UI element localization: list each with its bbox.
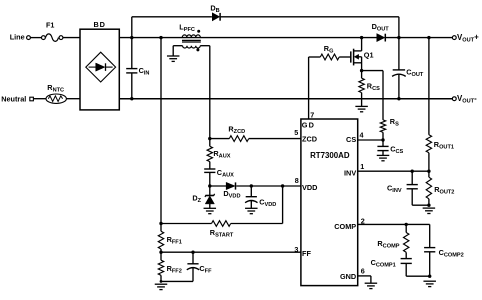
node RCOMP junction bbox=[405, 223, 408, 226]
svg-text:ROUT2: ROUT2 bbox=[434, 185, 454, 196]
svg-text:RZCD: RZCD bbox=[228, 125, 245, 136]
node COUT bottom junction bbox=[397, 97, 400, 100]
svg-text:5: 5 bbox=[294, 128, 298, 137]
svg-text:RCOMP: RCOMP bbox=[377, 239, 399, 250]
node Line input terminal bbox=[10, 32, 31, 41]
svg-text:RT7300AD: RT7300AD bbox=[310, 151, 350, 160]
inductor LPFC (boost inductor with aux winding) bbox=[179, 22, 201, 51]
pin 3 FF label bbox=[294, 245, 311, 258]
node Neutral input terminal bbox=[1, 95, 33, 104]
node CIN bottom junction bbox=[130, 97, 133, 100]
ground aux winding bbox=[167, 56, 180, 61]
resistor RFF1 bbox=[158, 231, 182, 252]
node COUT top junction bbox=[397, 36, 400, 39]
capacitor CVDD bbox=[245, 186, 276, 208]
ground RCS return bbox=[355, 106, 368, 111]
pin 5 ZCD label bbox=[294, 128, 317, 143]
resistor RAUX bbox=[207, 139, 231, 169]
ground IC GND pin bbox=[365, 283, 378, 288]
node VOUT- terminal bbox=[452, 94, 477, 105]
fuse F1 bbox=[42, 20, 63, 41]
capacitor CINV bbox=[387, 171, 429, 205]
wire FF divider to FF pin bbox=[161, 251, 301, 253]
wire aux winding left lead bbox=[173, 46, 182, 56]
wire CS pin to RS bottom bbox=[358, 139, 383, 141]
svg-text:RSTART: RSTART bbox=[210, 228, 234, 239]
svg-text:RFF1: RFF1 bbox=[167, 235, 182, 246]
node VDD feed junction bbox=[208, 184, 211, 187]
node Q1 source junction bbox=[360, 69, 363, 72]
pin 2 COMP label bbox=[334, 216, 364, 231]
svg-text:RNTC: RNTC bbox=[47, 83, 64, 94]
wire COMP pin to network bbox=[358, 223, 430, 225]
node FF divider junction bbox=[159, 251, 162, 254]
svg-text:1: 1 bbox=[360, 162, 364, 171]
ground CVDD bbox=[245, 208, 257, 213]
wire rectified line feed column bbox=[160, 38, 162, 232]
svg-text:VOUT+: VOUT+ bbox=[457, 33, 479, 44]
svg-text:BD: BD bbox=[94, 20, 106, 29]
svg-text:RG: RG bbox=[324, 44, 334, 55]
svg-text:RS: RS bbox=[390, 117, 399, 128]
svg-text:ROUT1: ROUT1 bbox=[434, 140, 454, 151]
node RSTART tap junction bbox=[159, 222, 162, 225]
wire INV pin to divider bbox=[358, 170, 429, 172]
node output divider tap junction bbox=[427, 36, 430, 39]
node compensation bottom junction bbox=[428, 275, 431, 278]
svg-text:CAUX: CAUX bbox=[217, 168, 234, 179]
pin 6 GND label bbox=[340, 266, 365, 281]
svg-text:CCOMP1: CCOMP1 bbox=[371, 258, 396, 269]
node divider INV junction bbox=[427, 170, 430, 173]
diode DB bbox=[210, 3, 220, 20]
ground compensation network bbox=[423, 281, 436, 286]
svg-text:DB: DB bbox=[210, 3, 219, 14]
node CIN top junction bbox=[130, 36, 133, 39]
node RSTART riser junction bbox=[281, 184, 284, 187]
resistor RS bbox=[380, 117, 399, 140]
svg-text:ZCD: ZCD bbox=[302, 134, 317, 143]
svg-text:RCS: RCS bbox=[367, 82, 380, 93]
svg-text:LPFC: LPFC bbox=[179, 22, 195, 33]
capacitor CFF bbox=[161, 252, 212, 281]
svg-text:DZ: DZ bbox=[192, 194, 201, 205]
svg-text:CIN: CIN bbox=[139, 66, 150, 77]
svg-text:Neutral: Neutral bbox=[1, 95, 26, 104]
svg-text:GD: GD bbox=[302, 121, 316, 130]
ground DZ bbox=[204, 208, 217, 213]
zener diode DZ bbox=[192, 186, 214, 208]
wire riser to DB wire bbox=[131, 17, 133, 38]
op-amp U1 controller IC RT7300AD bbox=[301, 119, 358, 286]
svg-text:Q1: Q1 bbox=[364, 50, 374, 59]
capacitor CCS bbox=[377, 140, 403, 155]
svg-text:COMP: COMP bbox=[334, 222, 356, 231]
svg-text:VDD: VDD bbox=[302, 183, 317, 192]
svg-text:DVDD: DVDD bbox=[223, 189, 240, 200]
wire ZCD tap to RZCD bbox=[210, 138, 230, 140]
resistor ROUT2 (lower divider) bbox=[426, 171, 454, 205]
capacitor COUT bbox=[392, 38, 424, 99]
svg-text:F1: F1 bbox=[46, 20, 54, 29]
svg-text:RAUX: RAUX bbox=[213, 149, 230, 160]
resistor RCOMP bbox=[377, 224, 409, 258]
wire GD pin riser bbox=[309, 57, 321, 119]
diode DVDD bbox=[210, 182, 301, 199]
resistor ROUT1 (upper divider) bbox=[426, 38, 454, 172]
svg-text:3: 3 bbox=[294, 245, 298, 254]
svg-text:CCS: CCS bbox=[390, 145, 403, 156]
svg-text:7: 7 bbox=[310, 110, 314, 119]
capacitor CCOMP1 bbox=[371, 258, 430, 276]
resistor RSTART bbox=[161, 221, 283, 239]
wire return rail bbox=[119, 98, 452, 100]
node LPFC feed junction bbox=[159, 36, 162, 39]
svg-text:4: 4 bbox=[360, 130, 364, 139]
pin 4 CS label bbox=[346, 130, 363, 144]
svg-text:FF: FF bbox=[302, 249, 311, 258]
node CFF top junction bbox=[191, 251, 194, 254]
transistor Q1 (power MOSFET) bbox=[351, 38, 374, 71]
ground CCS bbox=[377, 155, 390, 160]
wire DB bypass top bbox=[132, 16, 399, 18]
pin 1 INV label bbox=[344, 162, 364, 177]
bridge rectifier BD bbox=[80, 20, 119, 110]
wire Line to fuse bbox=[31, 37, 42, 39]
wire RCS ground stub bbox=[361, 99, 363, 107]
svg-text:8: 8 bbox=[295, 176, 299, 185]
node RFF2 CFF bottom junction bbox=[160, 280, 163, 283]
resistor RCS bbox=[359, 71, 380, 99]
capacitor CAUX bbox=[204, 168, 234, 186]
node CS junction bbox=[381, 138, 384, 141]
svg-text:CCOMP2: CCOMP2 bbox=[439, 248, 464, 259]
capacitor CCOMP2 bbox=[424, 224, 464, 276]
thermistor RNTC bbox=[46, 83, 66, 103]
svg-text:CFF: CFF bbox=[199, 264, 212, 275]
wire main rail from bridge to DOUT anode bbox=[119, 37, 377, 39]
svg-text:CS: CS bbox=[346, 135, 356, 144]
ground output divider bbox=[423, 208, 436, 213]
resistor RZCD bbox=[228, 125, 301, 142]
wire RNTC to bridge bbox=[66, 98, 80, 100]
wire fuse to bridge bbox=[63, 37, 80, 39]
svg-text:VOUT-: VOUT- bbox=[457, 94, 477, 105]
node divider bottom junction bbox=[427, 204, 430, 207]
node Q1 drain junction bbox=[360, 36, 363, 39]
pin 8 VDD label bbox=[295, 176, 318, 192]
capacitor CIN bbox=[126, 38, 149, 99]
node CVDD junction bbox=[250, 184, 253, 187]
svg-text:DOUT: DOUT bbox=[372, 22, 390, 33]
svg-text:GND: GND bbox=[340, 272, 356, 281]
wire RG to gate bbox=[339, 56, 351, 58]
svg-text:CINV: CINV bbox=[387, 184, 402, 195]
node RZCD tap junction bbox=[208, 137, 211, 140]
node VOUT+ terminal bbox=[452, 33, 479, 44]
wire Q1 source to RS bbox=[362, 71, 383, 120]
node CINV junction bbox=[411, 170, 414, 173]
svg-text:COUT: COUT bbox=[406, 68, 424, 79]
wire aux winding right lead bbox=[200, 46, 210, 139]
wire RSTART riser to VDD bbox=[282, 186, 284, 224]
ground RFF2 bbox=[155, 284, 168, 289]
svg-text:Line: Line bbox=[10, 32, 25, 41]
pin 7 GD label bbox=[302, 110, 316, 129]
resistor RFF2 bbox=[158, 252, 182, 281]
resistor RG bbox=[320, 44, 339, 60]
svg-text:CVDD: CVDD bbox=[259, 197, 276, 208]
svg-text:RFF2: RFF2 bbox=[167, 264, 182, 275]
wire DOUT to VOUT+ terminal bbox=[386, 37, 452, 39]
wire DB wire drop to output node bbox=[398, 17, 400, 38]
wire GND pin to ground bbox=[358, 276, 371, 283]
diode DOUT bbox=[372, 22, 390, 41]
svg-text:INV: INV bbox=[344, 169, 356, 178]
svg-text:6: 6 bbox=[361, 266, 365, 275]
wire Neutral to RNTC bbox=[33, 98, 46, 100]
